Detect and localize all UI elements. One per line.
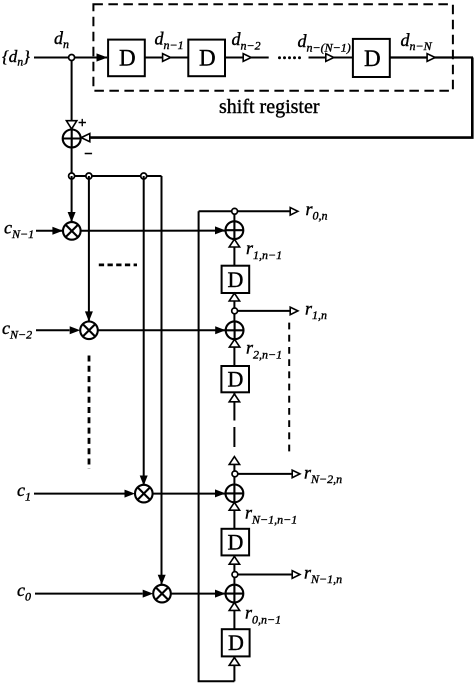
svg-text:D: D	[228, 630, 244, 655]
svg-text:D: D	[228, 267, 244, 292]
svg-text:−: −	[84, 147, 93, 163]
svg-text:D: D	[228, 367, 244, 392]
svg-text:+: +	[78, 116, 87, 132]
svg-text:shift register: shift register	[219, 96, 320, 118]
svg-text:D: D	[228, 530, 244, 555]
svg-text:D: D	[364, 46, 381, 71]
svg-text:D: D	[199, 46, 216, 71]
svg-text:D: D	[119, 46, 136, 71]
svg-text:{dn}: {dn}	[2, 47, 30, 69]
